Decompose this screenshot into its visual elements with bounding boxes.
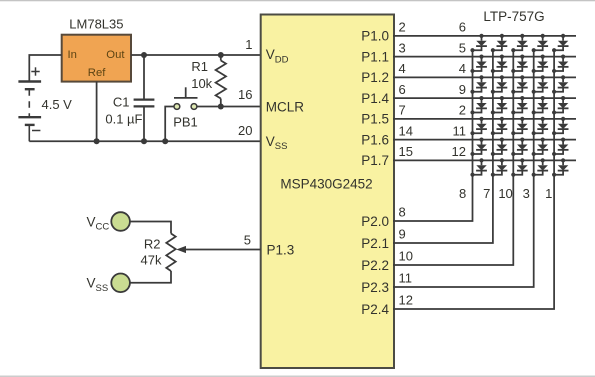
bottom frame line (0, 375, 595, 377)
svg-text:P1.3: P1.3 (267, 243, 295, 258)
svg-text:P2.3: P2.3 (361, 280, 389, 295)
svg-text:DD: DD (275, 54, 289, 65)
LED row 6 col 2 (491, 138, 508, 157)
LED row 2 col 5 (552, 55, 569, 73)
LED row 1 col 3 (511, 34, 528, 53)
svg-text:12: 12 (452, 144, 466, 159)
svg-text:1: 1 (545, 186, 552, 201)
svg-text:16: 16 (238, 87, 252, 102)
LED row 7 col 5 (552, 158, 569, 177)
svg-text:R1: R1 (191, 59, 208, 74)
wire MCLR: pushbutton to chip pin 16 (197, 106, 261, 108)
LED row 5 col 4 (532, 117, 548, 135)
LED row 2 col 3 (511, 55, 528, 73)
LED row 1 col 1 (470, 34, 487, 53)
svg-text:10: 10 (399, 249, 413, 264)
svg-text:6: 6 (399, 82, 406, 97)
wire P1.4 row to LED matrix row 9 (393, 97, 576, 99)
wire P1.2 row to LED matrix row 4 (393, 76, 576, 78)
LED row 7 col 2 (491, 158, 508, 177)
top frame line (0, 0, 595, 2)
wire P1.5 row to LED matrix row 2 (393, 118, 576, 120)
LED row 1 col 4 (532, 34, 548, 53)
LED row 7 col 4 (532, 158, 548, 177)
potentiometer R2 47k (141, 234, 176, 272)
wire VCC to R2 top (130, 222, 171, 234)
svg-text:10: 10 (498, 186, 512, 201)
svg-text:P1.6: P1.6 (361, 132, 389, 147)
microcontroller U1 MSP430G2452 (261, 15, 394, 369)
node VCC (87, 212, 130, 232)
svg-text:7: 7 (483, 186, 490, 201)
wire P2.3 to matrix column 3 (393, 50, 534, 287)
LED row 4 col 1 (470, 96, 487, 114)
svg-text:Out: Out (106, 49, 125, 61)
LED row 6 col 3 (511, 138, 528, 157)
svg-text:3: 3 (523, 186, 530, 201)
node: R1 bottom junction (218, 104, 224, 110)
svg-text:V: V (266, 47, 275, 62)
node: R1 top junction (218, 52, 224, 58)
node: PB1 junction (162, 138, 168, 144)
LED row 4 col 3 (511, 96, 528, 114)
svg-text:P1.2: P1.2 (361, 70, 389, 85)
LED row 4 col 2 (491, 96, 508, 114)
svg-text:4: 4 (459, 61, 466, 76)
LED row 3 col 5 (552, 75, 569, 93)
LED row 5 col 2 (491, 117, 508, 135)
LED row 6 col 1 (470, 138, 487, 157)
wire P1.7 row to LED matrix row 12 (393, 159, 576, 161)
svg-text:P2.0: P2.0 (361, 214, 389, 229)
LED row 1 col 2 (491, 34, 508, 53)
svg-text:C1: C1 (113, 95, 130, 110)
svg-text:2: 2 (459, 103, 466, 118)
LED row 2 col 1 (470, 55, 487, 73)
pin label VDD (266, 47, 289, 65)
svg-text:SS: SS (275, 141, 288, 152)
LED row 5 col 3 (511, 117, 528, 135)
svg-text:5: 5 (459, 40, 466, 55)
svg-text:0.1 µF: 0.1 µF (105, 111, 142, 126)
LED row 7 col 3 (511, 158, 528, 177)
LED row 4 col 4 (532, 96, 548, 114)
svg-text:8: 8 (459, 186, 466, 201)
wire P1.6 row to LED matrix row 11 (393, 139, 576, 141)
svg-text:P1.0: P1.0 (361, 29, 389, 44)
svg-text:9: 9 (399, 227, 406, 242)
wire P1.1 row to LED matrix row 5 (393, 56, 576, 58)
node VSS (87, 274, 130, 294)
LED row 2 col 4 (532, 55, 548, 73)
LED row 7 col 1 (470, 158, 487, 177)
wire P2.2 to matrix column 10 (393, 50, 513, 265)
wire P1.0 row to LED matrix row 6 (393, 35, 576, 37)
svg-text:V: V (87, 214, 96, 229)
wire from regulator In to battery (29, 55, 61, 82)
LED row 6 col 4 (532, 138, 548, 157)
svg-text:7: 7 (399, 103, 406, 118)
svg-text:V: V (266, 134, 275, 149)
svg-text:11: 11 (399, 271, 413, 286)
svg-text:12: 12 (399, 293, 413, 308)
svg-text:9: 9 (459, 82, 466, 97)
svg-text:15: 15 (399, 144, 413, 159)
resistor R1 10k (191, 55, 226, 107)
svg-text:PB1: PB1 (173, 115, 198, 130)
svg-text:2: 2 (399, 20, 406, 35)
LED row 3 col 4 (532, 75, 548, 93)
svg-text:8: 8 (399, 205, 406, 220)
capacitor C1 0.1uF (105, 55, 154, 141)
pin label VSS (266, 134, 288, 152)
LED row 2 col 2 (491, 55, 508, 73)
svg-text:V: V (87, 276, 96, 291)
svg-text:4: 4 (399, 61, 406, 76)
svg-text:6: 6 (459, 20, 466, 35)
LED row 5 col 5 (552, 117, 569, 135)
wire P2.4 to matrix column 1 (393, 50, 554, 309)
svg-text:1: 1 (245, 37, 252, 52)
wire VDD rail: regulator Out to chip pin 1 (131, 54, 261, 56)
wire R2 wiper to chip pin 5 (176, 246, 260, 253)
LED row 6 col 5 (552, 138, 569, 157)
LED row 3 col 3 (511, 75, 528, 93)
svg-text:LTP-757G: LTP-757G (483, 9, 544, 24)
svg-text:P2.2: P2.2 (361, 258, 389, 273)
svg-text:MSP430G2452: MSP430G2452 (280, 177, 372, 192)
wire P2.0 to matrix column 8 (393, 50, 473, 221)
svg-text:4.5 V: 4.5 V (42, 97, 73, 112)
wire VSS to R2 bottom (130, 271, 171, 283)
svg-text:In: In (68, 49, 77, 61)
svg-text:LM78L35: LM78L35 (69, 17, 123, 32)
node: C1 top junction (141, 52, 147, 58)
wire VSS rail: battery to chip pin 20 (29, 140, 260, 142)
pushbutton PB1 (173, 87, 198, 129)
battery BT1 4.5V (18, 67, 72, 141)
svg-text:P1.5: P1.5 (361, 112, 389, 127)
svg-text:CC: CC (96, 222, 110, 233)
node: Ref junction (94, 138, 100, 144)
LED row 3 col 2 (491, 75, 508, 93)
svg-text:10k: 10k (191, 76, 212, 91)
svg-text:P1.7: P1.7 (361, 153, 389, 168)
svg-text:11: 11 (453, 123, 467, 138)
wire P2.1 to matrix column 7 (393, 50, 493, 243)
svg-text:20: 20 (238, 123, 252, 138)
regulator U2 LM78L35 (62, 17, 131, 82)
svg-text:Ref: Ref (88, 67, 106, 79)
node: C1 bottom junction (141, 138, 147, 144)
svg-text:P1.1: P1.1 (361, 49, 389, 64)
svg-text:MCLR: MCLR (266, 99, 305, 114)
svg-text:5: 5 (244, 233, 251, 248)
svg-text:3: 3 (399, 40, 406, 55)
svg-text:SS: SS (96, 283, 109, 294)
wire PB1 left terminal to VSS rail (165, 107, 174, 142)
LED row 5 col 1 (470, 117, 487, 135)
svg-text:R2: R2 (144, 237, 161, 252)
LED row 1 col 5 (552, 34, 569, 53)
svg-text:P1.4: P1.4 (361, 91, 389, 106)
svg-text:14: 14 (399, 123, 413, 138)
LED row 4 col 5 (552, 96, 569, 114)
wire Ref pin to VSS rail (96, 82, 98, 142)
svg-text:P2.1: P2.1 (361, 236, 389, 251)
svg-text:47k: 47k (141, 252, 162, 267)
svg-text:P2.4: P2.4 (361, 302, 389, 317)
LED row 3 col 1 (470, 75, 487, 93)
